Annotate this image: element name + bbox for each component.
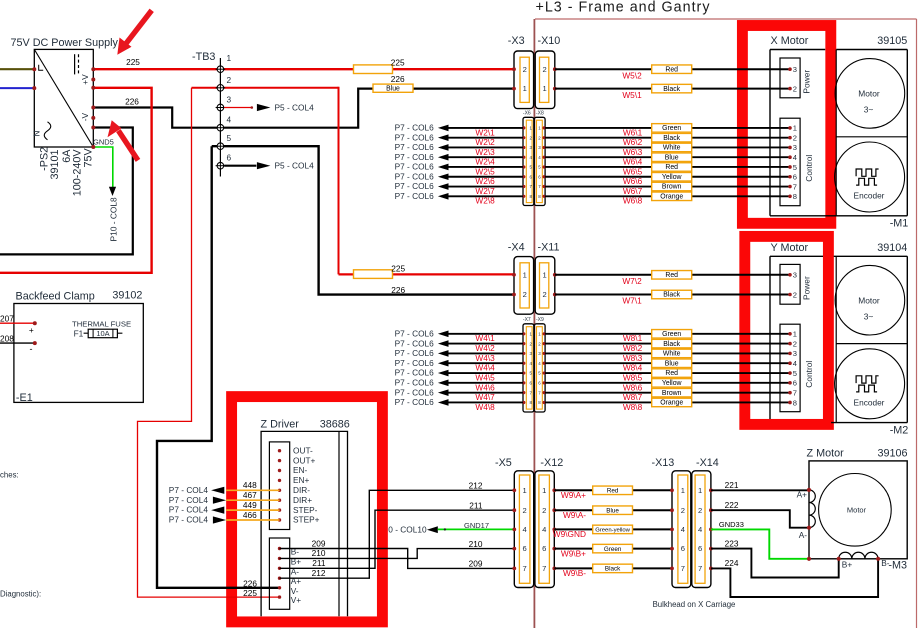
- backfeed clamp E1 (39102): [14, 290, 143, 405]
- svg-text:Red: Red: [665, 272, 678, 279]
- wire W4\6 P7 - COL6 to -X7 pin 6: [395, 378, 523, 393]
- svg-text:W7\1: W7\1: [622, 296, 642, 306]
- svg-text:P7 - COL6: P7 - COL6: [395, 123, 435, 133]
- svg-text:W6\6: W6\6: [623, 176, 643, 186]
- svg-text:-V: -V: [80, 113, 90, 122]
- wire W4\4 P7 - COL6 to -X7 pin 4: [395, 358, 523, 373]
- wire W2\1 P7 - COL6 to -X6 pin 1: [395, 123, 523, 138]
- svg-text:P7 - COL4: P7 - COL4: [169, 495, 209, 505]
- svg-text:8: 8: [793, 398, 797, 407]
- svg-text:W2\1: W2\1: [475, 127, 495, 137]
- wire W8\6 Yellow (-X9 pin 6 to M2 control 6): [545, 379, 790, 393]
- svg-text:Black: Black: [605, 566, 621, 573]
- svg-text:A-: A-: [799, 530, 808, 540]
- svg-text:1: 1: [523, 84, 527, 93]
- svg-text:-X9: -X9: [536, 317, 544, 323]
- svg-text:-X12: -X12: [540, 457, 563, 469]
- svg-text:3: 3: [793, 349, 797, 358]
- svg-text:1: 1: [522, 486, 526, 495]
- svg-text:W4\3: W4\3: [475, 353, 495, 363]
- wire W2\5 P7 - COL6 to -X6 pin 5: [395, 162, 523, 177]
- wire W2\2 P7 - COL6 to -X6 pin 2: [395, 132, 523, 147]
- wire W8\7 Brown (-X9 pin 7 to M2 control 7): [545, 388, 790, 402]
- svg-text:-X7: -X7: [523, 317, 531, 323]
- svg-text:P10 - COL8: P10 - COL8: [109, 197, 119, 242]
- svg-text:212: 212: [312, 568, 326, 578]
- wire W5\1 Black (-X10 pin1 to M1 power 2): [555, 84, 790, 99]
- svg-text:Power: Power: [802, 70, 812, 94]
- wire W9\B+ Green (-X12 to -X13): [554, 544, 672, 558]
- svg-text:6: 6: [793, 379, 797, 388]
- svg-text:Black: Black: [663, 292, 680, 299]
- svg-text:-M2: -M2: [890, 424, 909, 436]
- annotation red arrow 2: [108, 120, 139, 160]
- wire W6\4 Blue (-X8 pin 4 to M1 control 4): [545, 153, 790, 167]
- wire 467 P7 - COL4 to Z driver: [169, 490, 280, 505]
- svg-text:4: 4: [681, 525, 685, 534]
- svg-text:W4\5: W4\5: [475, 372, 495, 382]
- svg-text:1: 1: [523, 270, 527, 279]
- svg-text:GND17: GND17: [464, 521, 489, 530]
- svg-text:5: 5: [793, 369, 797, 378]
- svg-text:Blue: Blue: [665, 154, 679, 161]
- svg-text:-E1: -E1: [16, 392, 33, 404]
- svg-text:448: 448: [243, 480, 257, 490]
- svg-text:THERMAL FUSE: THERMAL FUSE: [72, 320, 131, 329]
- svg-text:Bulkhead on X Carriage: Bulkhead on X Carriage: [653, 600, 736, 609]
- svg-text:2: 2: [793, 339, 797, 348]
- svg-text:223: 223: [725, 538, 739, 548]
- svg-text:210: 210: [312, 548, 326, 558]
- wire W9\A+ Red (-X12 to -X13): [554, 486, 672, 500]
- text fragment ches:: [0, 470, 19, 479]
- svg-text:W8\6: W8\6: [623, 382, 643, 392]
- power supply PS2 (75V DC Power Supply 39101): [11, 37, 119, 196]
- wire W4\7 P7 - COL6 to -X7 pin 7: [395, 387, 523, 402]
- wire GND33 (-X14 pin4 to M3 frame ground): [711, 520, 809, 559]
- svg-text:10A: 10A: [96, 329, 109, 338]
- svg-text:Z Motor: Z Motor: [807, 447, 845, 459]
- wire 225 (+75V) PSU to -X3: [93, 57, 514, 74]
- svg-text:3~: 3~: [864, 105, 874, 115]
- svg-text:EN-: EN-: [293, 465, 308, 475]
- wire 223 (-X14 pin6 to M3 B+): [711, 538, 839, 577]
- svg-text:W8\5: W8\5: [623, 372, 643, 382]
- wire 222 (-X14 pin2 to M3 A-): [711, 500, 810, 528]
- svg-text:+: +: [29, 325, 34, 335]
- svg-text:-X4: -X4: [508, 242, 525, 254]
- svg-text:7: 7: [522, 564, 526, 573]
- connector X8: [534, 111, 545, 206]
- svg-text:2: 2: [523, 65, 527, 74]
- wire 466 P7 - COL4 to Z driver: [169, 510, 280, 525]
- svg-text:Encoder: Encoder: [854, 397, 885, 407]
- svg-text:211: 211: [312, 558, 326, 568]
- wire W2\3 P7 - COL6 to -X6 pin 3: [395, 142, 523, 157]
- svg-text:5: 5: [227, 133, 232, 143]
- wire 207 (+) into E1: [0, 314, 37, 336]
- svg-text:W6\7: W6\7: [623, 186, 643, 196]
- svg-text:W9\A+: W9\A+: [561, 490, 586, 500]
- svg-text:3: 3: [227, 95, 232, 105]
- svg-text:V+: V+: [291, 595, 302, 605]
- svg-text:39102: 39102: [112, 290, 142, 302]
- svg-text:EN+: EN+: [293, 475, 310, 485]
- svg-text:1: 1: [542, 486, 546, 495]
- svg-text:W8\7: W8\7: [623, 392, 643, 402]
- svg-text:2: 2: [542, 290, 546, 299]
- svg-text:-X14: -X14: [696, 457, 719, 469]
- svg-text:6: 6: [522, 544, 526, 553]
- svg-text:Green: Green: [662, 331, 681, 338]
- svg-text:Diagnostic):: Diagnostic):: [0, 590, 41, 599]
- wire W6\3 White (-X8 pin 3 to M1 control 3): [545, 143, 790, 157]
- wire P5 - COL4 from TB3-3: [224, 102, 314, 112]
- svg-text:Green: Green: [604, 546, 622, 553]
- svg-text:2: 2: [523, 290, 527, 299]
- svg-text:Blue: Blue: [665, 360, 679, 367]
- svg-text:W6\1: W6\1: [623, 127, 643, 137]
- wire W8\1 Green (-X9 pin 1 to M2 control 1): [545, 330, 790, 344]
- svg-text:226: 226: [243, 579, 257, 589]
- svg-text:208: 208: [0, 333, 14, 343]
- svg-text:P5 - COL4: P5 - COL4: [275, 102, 315, 112]
- svg-text:1: 1: [681, 486, 685, 495]
- svg-text:W5\2: W5\2: [622, 70, 642, 80]
- svg-text:Red: Red: [665, 370, 678, 377]
- svg-text:225: 225: [243, 588, 257, 598]
- svg-text:Brown: Brown: [662, 184, 682, 191]
- wire W8\2 Black (-X9 pin 2 to M2 control 2): [545, 339, 790, 353]
- svg-text:6: 6: [681, 544, 685, 553]
- svg-text:38686: 38686: [320, 419, 350, 431]
- svg-text:GND5: GND5: [93, 137, 114, 146]
- svg-text:4: 4: [793, 153, 797, 162]
- title +L3 - Frame and Gantry: [536, 0, 711, 16]
- svg-text:W6\4: W6\4: [623, 157, 643, 167]
- svg-text:P7 - COL6: P7 - COL6: [395, 191, 435, 201]
- wire W2\8 P7 - COL6 to -X6 pin 8: [395, 191, 523, 206]
- svg-text:1: 1: [542, 270, 546, 279]
- svg-text:212: 212: [469, 481, 483, 491]
- svg-text:Y Motor: Y Motor: [771, 242, 809, 254]
- svg-text:211: 211: [469, 500, 483, 510]
- wire 226 (0V) PSU to -X3 via TB3-4: [93, 74, 514, 128]
- M2 power connector pins 3,2: [780, 264, 812, 304]
- M2 control connector pins 1-8: [780, 324, 814, 412]
- terminal block TB3 terminals 1-6: [192, 51, 232, 177]
- svg-text:Black: Black: [663, 341, 680, 348]
- svg-text:+V: +V: [80, 74, 90, 85]
- svg-text:W2\5: W2\5: [475, 166, 495, 176]
- svg-text:P7 - COL4: P7 - COL4: [169, 515, 209, 525]
- svg-text:209: 209: [312, 538, 326, 548]
- svg-text:A+: A+: [797, 490, 808, 500]
- wire 0V branch TB3-5 to -X4 pin2: [212, 146, 515, 294]
- wire W6\2 Black (-X8 pin 2 to M1 control 2): [545, 133, 790, 147]
- motor M3 (Z Motor 39106): [807, 447, 908, 571]
- wire W6\8 Orange (-X8 pin 8 to M1 control 8): [545, 192, 790, 206]
- svg-text:-TB3: -TB3: [192, 51, 215, 63]
- svg-text:W2\7: W2\7: [475, 186, 495, 196]
- annotation highlight box Y Motor: [745, 236, 829, 424]
- svg-text:P7 - COL6: P7 - COL6: [395, 387, 435, 397]
- svg-text:209: 209: [469, 559, 483, 569]
- svg-text:100-240V: 100-240V: [71, 149, 83, 197]
- svg-text:B-: B-: [881, 558, 890, 568]
- svg-text:W2\8: W2\8: [475, 196, 495, 206]
- svg-text:2: 2: [542, 65, 546, 74]
- svg-text:7: 7: [681, 564, 685, 573]
- svg-text:7: 7: [793, 182, 797, 191]
- annotation highlight box Z Driver: [232, 397, 383, 622]
- svg-text:P7 - COL6: P7 - COL6: [395, 378, 435, 388]
- svg-text:2: 2: [793, 290, 797, 299]
- svg-text:W9\A-: W9\A-: [563, 510, 586, 520]
- wire 225 branch to Z driver V+: [138, 88, 280, 598]
- annotation highlight box X Motor: [742, 26, 830, 224]
- svg-text:3: 3: [793, 65, 797, 74]
- wire 209 Z driver B- to -X5 pin7: [280, 538, 515, 568]
- svg-text:P7 - COL6: P7 - COL6: [395, 329, 435, 339]
- svg-text:W6\3: W6\3: [623, 147, 643, 157]
- svg-text:225: 225: [391, 57, 405, 67]
- svg-text:2: 2: [227, 75, 232, 85]
- svg-text:1: 1: [793, 330, 797, 339]
- Z driver control pin header (OUT/EN/DIR/STEP): [269, 442, 319, 530]
- svg-text:P5 - COL4: P5 - COL4: [275, 161, 315, 171]
- svg-text:39106: 39106: [877, 447, 907, 459]
- svg-text:449: 449: [243, 500, 257, 510]
- svg-text:7: 7: [542, 564, 546, 573]
- svg-text:-: -: [30, 344, 33, 354]
- svg-text:-M1: -M1: [890, 218, 909, 230]
- connector X6: [522, 111, 534, 206]
- wire W6\7 Brown (-X8 pin 7 to M1 control 7): [545, 182, 790, 196]
- svg-text:Red: Red: [607, 488, 619, 495]
- wire W6\6 Yellow (-X8 pin 6 to M1 control 6): [545, 173, 790, 187]
- svg-text:2: 2: [793, 84, 797, 93]
- svg-text:P7 - COL6: P7 - COL6: [395, 142, 435, 152]
- wire 448 P7 - COL4 to Z driver: [169, 480, 280, 495]
- svg-text:P7 - COL6: P7 - COL6: [395, 368, 435, 378]
- svg-text:DIR-: DIR-: [293, 485, 310, 495]
- ground node GND5 green wire with arrow P10 - COL8: [91, 137, 118, 241]
- svg-text:2: 2: [793, 133, 797, 142]
- wire -V black branch to left edge: [0, 128, 133, 255]
- wire 211 Z driver A- to -X5 pin2: [280, 500, 515, 568]
- svg-text:P7 - COL6: P7 - COL6: [395, 348, 435, 358]
- annotation red arrow 1: [117, 10, 151, 55]
- svg-text:P7 - COL6: P7 - COL6: [395, 338, 435, 348]
- connector X9: [534, 317, 545, 412]
- wire W9\A- Blue (-X12 to -X13): [554, 506, 672, 520]
- svg-text:W9\B-: W9\B-: [563, 568, 586, 578]
- svg-text:Orange: Orange: [660, 400, 683, 407]
- svg-text:W4\6: W4\6: [475, 382, 495, 392]
- svg-text:Motor: Motor: [858, 89, 880, 99]
- svg-text:P7 - COL4: P7 - COL4: [169, 485, 209, 495]
- svg-text:Brown: Brown: [662, 390, 682, 397]
- svg-text:224: 224: [725, 558, 739, 568]
- connector X3: [508, 35, 534, 109]
- connector X11: [535, 242, 559, 315]
- svg-text:2: 2: [542, 506, 546, 515]
- svg-text:1: 1: [542, 84, 546, 93]
- wire W9\B- Black (-X12 to -X13): [554, 564, 672, 578]
- svg-text:Black: Black: [663, 135, 680, 142]
- svg-text:White: White: [663, 351, 681, 358]
- svg-text:ches:: ches:: [0, 470, 19, 479]
- wire P5 - COL4 from TB3-6: [224, 161, 314, 171]
- svg-text:OUT-: OUT-: [293, 445, 313, 455]
- svg-text:Power: Power: [802, 276, 812, 300]
- svg-text:W4\7: W4\7: [475, 392, 495, 402]
- svg-text:3: 3: [793, 143, 797, 152]
- svg-text:467: 467: [243, 490, 257, 500]
- svg-text:75V DC Power Supply: 75V DC Power Supply: [11, 37, 119, 49]
- svg-text:3: 3: [793, 271, 797, 280]
- svg-text:P7 - COL6: P7 - COL6: [395, 181, 435, 191]
- wire 224 (-X14 pin7 to M3 B-): [711, 558, 878, 597]
- svg-text:Red: Red: [665, 164, 678, 171]
- svg-text:P7 - COL6: P7 - COL6: [395, 132, 435, 142]
- svg-text:39105: 39105: [877, 35, 907, 47]
- svg-text:6: 6: [542, 544, 546, 553]
- svg-text:210: 210: [469, 539, 483, 549]
- wire W4\2 P7 - COL6 to -X7 pin 2: [395, 338, 523, 353]
- svg-text:Motor: Motor: [858, 296, 880, 306]
- svg-text:8: 8: [793, 192, 797, 201]
- svg-text:6: 6: [698, 544, 702, 553]
- svg-text:Green: Green: [662, 125, 681, 132]
- wire W8\8 Orange (-X9 pin 8 to M2 control 8): [545, 398, 790, 412]
- svg-text:W4\2: W4\2: [475, 343, 495, 353]
- svg-text:W5\1: W5\1: [622, 90, 642, 100]
- thermal fuse F1 10A: [72, 320, 131, 339]
- svg-text:1: 1: [227, 53, 232, 63]
- connector X13: [652, 457, 691, 588]
- svg-text:7: 7: [698, 564, 702, 573]
- svg-text:W7\2: W7\2: [622, 276, 642, 286]
- motor -M2 (Y Motor 39104): [770, 242, 908, 436]
- wire W8\5 Red (-X9 pin 5 to M2 control 5): [545, 369, 790, 383]
- svg-text:207: 207: [0, 314, 14, 324]
- svg-text:-X13: -X13: [652, 457, 675, 469]
- svg-text:2: 2: [522, 506, 526, 515]
- connector X4: [508, 242, 534, 315]
- svg-text:-X10: -X10: [538, 35, 561, 47]
- svg-text:39104: 39104: [877, 242, 907, 254]
- svg-text:GND33: GND33: [719, 520, 744, 529]
- svg-text:Yellow: Yellow: [662, 174, 682, 181]
- svg-text:W4\4: W4\4: [475, 363, 495, 373]
- svg-text:P7 - COL6: P7 - COL6: [395, 162, 435, 172]
- svg-text:White: White: [663, 145, 681, 152]
- svg-text:225: 225: [391, 264, 405, 274]
- wire GND17 P10 - COL10 to -X5 pin4: [388, 521, 514, 535]
- svg-text:Green-yellow: Green-yellow: [595, 528, 630, 534]
- svg-text:225: 225: [126, 57, 140, 67]
- wire W5\2 Red (-X10 pin2 to M1 power 3): [555, 65, 790, 80]
- svg-text:2: 2: [681, 506, 685, 515]
- M1 power connector pins 3,2: [780, 58, 812, 98]
- svg-text:W2\3: W2\3: [475, 147, 495, 157]
- svg-text:-X5: -X5: [495, 457, 512, 469]
- svg-text:Yellow: Yellow: [662, 380, 682, 387]
- svg-text:3~: 3~: [864, 312, 874, 322]
- wire W8\4 Blue (-X9 pin 4 to M2 control 4): [545, 359, 790, 373]
- svg-text:STEP-: STEP-: [293, 505, 318, 515]
- svg-text:P7 - COL6: P7 - COL6: [395, 171, 435, 181]
- svg-text:W9\B+: W9\B+: [561, 548, 586, 558]
- connector X7: [522, 317, 534, 412]
- wire 210 Z driver B+ to -X5 pin6: [280, 539, 515, 559]
- svg-text:1: 1: [793, 124, 797, 133]
- svg-text:STEP+: STEP+: [293, 515, 320, 525]
- svg-text:75V: 75V: [83, 147, 95, 167]
- svg-text:-X11: -X11: [538, 242, 560, 254]
- svg-text:1: 1: [698, 486, 702, 495]
- svg-text:W8\4: W8\4: [623, 363, 643, 373]
- svg-text:DIR+: DIR+: [293, 495, 312, 505]
- M1 control connector pins 1-8: [780, 118, 814, 206]
- svg-text:N: N: [31, 131, 41, 137]
- svg-text:W8\3: W8\3: [623, 353, 643, 363]
- svg-text:Orange: Orange: [660, 193, 683, 200]
- svg-text:W4\8: W4\8: [475, 402, 495, 412]
- wire 0V branch to Z driver V-: [157, 146, 280, 588]
- svg-text:Backfeed Clamp: Backfeed Clamp: [16, 291, 95, 303]
- svg-text:6: 6: [227, 153, 232, 163]
- text Bulkhead on X Carriage: [653, 600, 736, 609]
- svg-text:4: 4: [542, 525, 546, 534]
- wire W2\7 P7 - COL6 to -X6 pin 7: [395, 181, 523, 196]
- svg-text:Control: Control: [804, 155, 814, 182]
- wire W8\3 White (-X9 pin 3 to M2 control 3): [545, 349, 790, 363]
- wire N supply input: [0, 87, 34, 89]
- wire 212 Z driver A+ to -X5 pin1: [280, 481, 515, 579]
- svg-text:4: 4: [227, 115, 232, 125]
- svg-text:W6\8: W6\8: [623, 196, 643, 206]
- svg-text:222: 222: [725, 500, 739, 510]
- svg-text:W8\1: W8\1: [623, 333, 643, 343]
- svg-text:Blue: Blue: [606, 507, 619, 514]
- wire W6\1 Green (-X8 pin 1 to M1 control 1): [545, 124, 790, 138]
- wire 449 P7 - COL4 to Z driver: [169, 500, 280, 515]
- motor -M1 (X Motor 39105): [770, 35, 908, 229]
- svg-text:226: 226: [125, 96, 139, 106]
- wire W2\6 P7 - COL6 to -X6 pin 6: [395, 171, 523, 186]
- svg-text:Z Driver: Z Driver: [261, 419, 300, 431]
- svg-text:Red: Red: [665, 66, 678, 73]
- wire 225 branch TB3-2 to -X4 pin1: [192, 87, 515, 295]
- svg-text:W8\2: W8\2: [623, 343, 643, 353]
- svg-text:5: 5: [793, 163, 797, 172]
- svg-text:OUT+: OUT+: [293, 455, 316, 465]
- svg-text:4: 4: [793, 359, 797, 368]
- svg-text:W2\2: W2\2: [475, 137, 495, 147]
- svg-text:P7 - COL4: P7 - COL4: [169, 505, 209, 515]
- svg-text:2: 2: [698, 506, 702, 515]
- connector X10: [535, 35, 560, 109]
- svg-text:P7 - COL6: P7 - COL6: [395, 152, 435, 162]
- connector X5: [495, 457, 534, 588]
- svg-text:B+: B+: [842, 559, 853, 569]
- Z driver motor pin header (B/A/V): [269, 538, 301, 609]
- svg-text:7: 7: [793, 388, 797, 397]
- svg-text:P7 - COL6: P7 - COL6: [395, 397, 435, 407]
